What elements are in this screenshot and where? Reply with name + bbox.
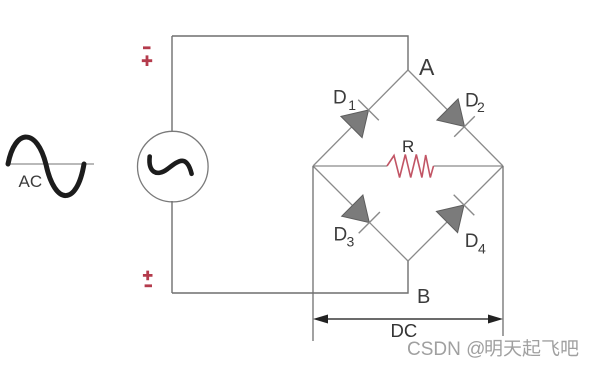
diode D4 triangle bbox=[436, 205, 464, 233]
DC dimension arrow line bbox=[319, 318, 497, 320]
diode D4 cathode bar bbox=[454, 195, 475, 216]
AC source circle bbox=[138, 131, 209, 202]
watermark char 飞 bbox=[542, 340, 559, 356]
diode D1 cathode bar bbox=[358, 100, 379, 121]
svg-text:D: D bbox=[333, 88, 347, 109]
svg-text:1: 1 bbox=[348, 97, 356, 113]
watermark CSDN bbox=[407, 339, 578, 360]
diode D3 triangle bbox=[342, 195, 370, 223]
watermark char 起 bbox=[523, 339, 541, 357]
bridge edge left-to-A bbox=[313, 70, 408, 166]
resistor R wire right lead bbox=[434, 165, 504, 167]
diode D1 triangle bbox=[341, 110, 369, 138]
watermark char 明 bbox=[486, 340, 502, 357]
bridge edge A-to-right bbox=[408, 70, 503, 166]
svg-text:D: D bbox=[465, 231, 479, 252]
diode D2 triangle bbox=[437, 99, 465, 127]
svg-text:B: B bbox=[417, 286, 430, 308]
svg-text:2: 2 bbox=[477, 99, 485, 115]
resistor R wire left lead bbox=[313, 165, 387, 167]
svg-text:DC: DC bbox=[391, 320, 418, 341]
watermark char 天 bbox=[504, 341, 522, 357]
wire left lower bbox=[171, 201, 173, 293]
polarity bottom minus bbox=[145, 284, 152, 287]
AC sine waveform bbox=[8, 137, 84, 196]
DC bracket left line bbox=[312, 166, 314, 341]
svg-text:4: 4 bbox=[478, 241, 486, 257]
svg-text:3: 3 bbox=[347, 233, 355, 249]
polarity top minus bbox=[143, 46, 151, 49]
DC arrowhead left bbox=[313, 315, 328, 324]
resistor R zigzag bbox=[387, 155, 434, 178]
svg-text:R: R bbox=[402, 137, 414, 156]
diode D3 cathode bar bbox=[359, 212, 380, 233]
polarity bottom plus bbox=[143, 271, 153, 281]
DC bracket right line bbox=[502, 166, 504, 336]
AC source squiggle bbox=[149, 157, 191, 174]
AC waveform axis line bbox=[7, 163, 94, 165]
bridge edge B-to-right bbox=[408, 166, 503, 261]
diode D2 cathode bar bbox=[454, 116, 475, 137]
wire top bbox=[172, 36, 408, 70]
watermark char 吧 bbox=[562, 340, 579, 356]
svg-text:D: D bbox=[334, 224, 348, 245]
svg-text:AC: AC bbox=[19, 172, 43, 191]
svg-text:CSDN @: CSDN @ bbox=[407, 339, 485, 360]
bridge edge left-to-B bbox=[313, 166, 408, 261]
polarity top plus bbox=[142, 55, 152, 66]
DC arrowhead right bbox=[488, 315, 503, 324]
wire left upper bbox=[171, 36, 173, 132]
wire bottom bbox=[172, 261, 408, 293]
svg-text:A: A bbox=[419, 54, 435, 80]
